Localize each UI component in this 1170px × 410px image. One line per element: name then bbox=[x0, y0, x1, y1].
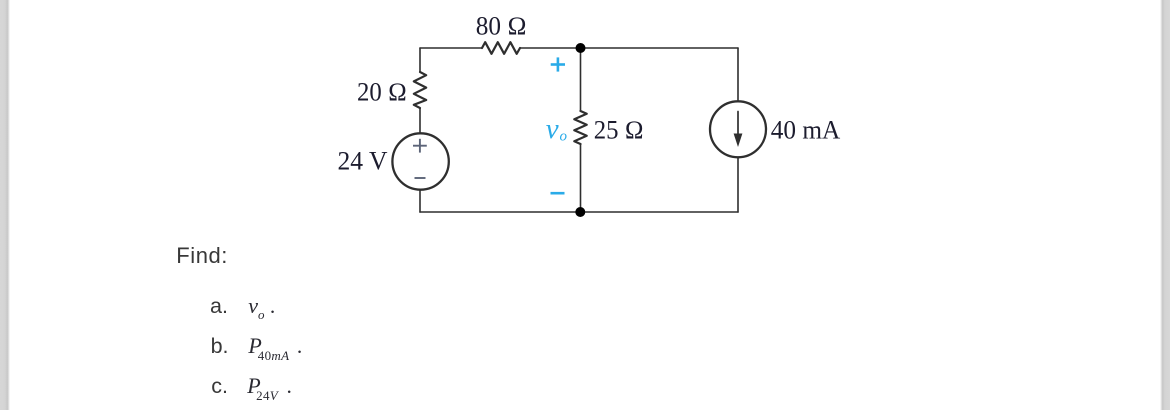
current source I1 40mA circle bbox=[710, 101, 766, 157]
left gray strip bbox=[0, 0, 11, 410]
resistor R 25ohm zigzag bbox=[574, 111, 586, 144]
list item b bbox=[211, 335, 303, 358]
current source arrow shaft bbox=[737, 112, 739, 139]
wire top-left horizontal segment bbox=[420, 47, 482, 49]
resistor R 20ohm zigzag bbox=[414, 72, 426, 108]
current source arrowhead bbox=[734, 134, 743, 148]
voltage source minus sign bbox=[415, 177, 426, 179]
svg-text:40 mA: 40 mA bbox=[771, 116, 841, 145]
svg-text:80 Ω: 80 Ω bbox=[476, 11, 527, 40]
wire below source bbox=[419, 190, 421, 212]
bottom wire bbox=[420, 211, 738, 213]
voltage source V1 24V circle bbox=[392, 133, 448, 189]
list item a bbox=[210, 295, 275, 318]
list item c bbox=[211, 375, 292, 398]
voltage source plus sign bbox=[413, 139, 427, 153]
right gray strip bbox=[1159, 0, 1170, 410]
plus sign cyan top bbox=[551, 57, 565, 71]
wire top-right horizontal segment bbox=[520, 47, 738, 49]
resistor R 80ohm zigzag bbox=[482, 42, 520, 54]
svg-text:25 Ω: 25 Ω bbox=[594, 116, 644, 145]
text Find: bbox=[176, 245, 228, 267]
svg-text:24 V: 24 V bbox=[338, 147, 388, 176]
wire left branch upper bbox=[419, 48, 421, 72]
svg-text:o: o bbox=[560, 129, 568, 145]
wire from 20ohm to source bbox=[419, 108, 421, 133]
right branch wire lower bbox=[737, 157, 739, 212]
node dot top bbox=[576, 43, 586, 53]
minus sign cyan bottom bbox=[551, 192, 565, 195]
middle branch wire lower bbox=[580, 144, 582, 212]
node dot bottom bbox=[575, 207, 585, 217]
right branch wire upper bbox=[737, 48, 739, 101]
middle branch wire upper bbox=[580, 48, 582, 111]
svg-text:v: v bbox=[546, 113, 559, 145]
svg-text:20 Ω: 20 Ω bbox=[357, 77, 407, 106]
